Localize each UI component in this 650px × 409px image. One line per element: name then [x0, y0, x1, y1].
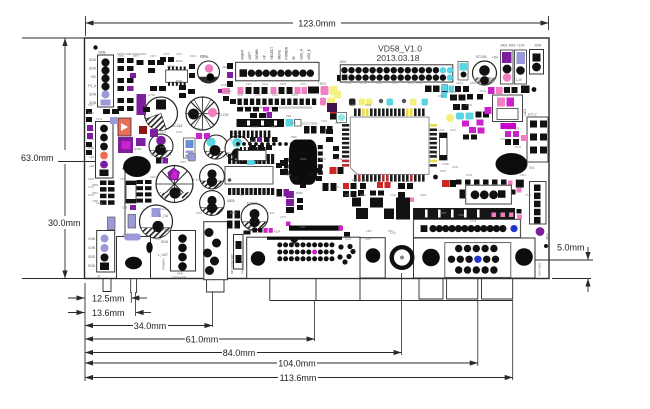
board outline	[85, 38, 550, 279]
svg-text:K212: K212	[450, 128, 457, 132]
svg-text:R484: R484	[88, 177, 95, 181]
svg-text:J402 J401 +12V: J402 J401 +12V	[500, 44, 525, 48]
svg-text:U637: U637	[392, 81, 399, 85]
svg-text:C457: C457	[350, 103, 357, 107]
diode Q701 salmon	[118, 118, 158, 153]
SMD cluster under QFP	[343, 178, 391, 197]
SMD cluster left of QFP	[318, 82, 347, 160]
svg-text:C84: C84	[160, 145, 166, 149]
svg-text:GND: GND	[88, 264, 96, 268]
dimension 113.6mm	[85, 371, 513, 383]
SMD pair near J013	[516, 180, 524, 188]
capacitor ECR26	[200, 191, 225, 216]
svg-text:U580: U580	[440, 211, 447, 215]
IC U803	[238, 147, 266, 164]
svg-text:C474: C474	[335, 121, 342, 125]
svg-text:D444: D444	[285, 173, 292, 177]
connector J408	[88, 51, 113, 108]
svg-text:U862: U862	[420, 193, 427, 197]
svg-text:K144: K144	[164, 229, 171, 233]
svg-text:J001: J001	[339, 60, 346, 64]
svg-text:U931: U931	[500, 137, 507, 141]
svg-text:MENU: MENU	[277, 49, 281, 59]
svg-text:5 6: 5 6	[530, 166, 535, 170]
svg-text:C30: C30	[404, 179, 410, 183]
svg-text:34.0mm: 34.0mm	[134, 321, 167, 331]
resistors R223 R225	[505, 127, 527, 146]
connector LVDS	[414, 219, 521, 237]
capacitor C608 teal	[225, 131, 250, 161]
svg-text:VD58_V1.0: VD58_V1.0	[378, 44, 422, 54]
svg-text:SPEAKER: SPEAKER	[172, 275, 187, 279]
J7 tab below board	[103, 279, 111, 292]
svg-text:D661: D661	[292, 93, 299, 97]
speaker labels	[158, 214, 169, 257]
tiny designator texts	[88, 52, 532, 241]
SMD pads pair mid	[227, 211, 240, 229]
SMD cluster extra mid	[86, 142, 282, 168]
svg-text:5.0mm: 5.0mm	[557, 243, 585, 253]
via dot near VGA	[544, 244, 548, 248]
SMD red right of blob	[330, 167, 344, 174]
svg-text:1.2V: 1.2V	[516, 78, 523, 82]
svg-text:R501: R501	[434, 150, 438, 158]
SMD row C624	[237, 114, 302, 127]
svg-text:K911: K911	[246, 82, 252, 86]
svg-text:EC165: EC165	[476, 55, 486, 59]
svg-text:R250: R250	[440, 169, 447, 173]
svg-text:K324: K324	[274, 230, 281, 234]
svg-text:U71 2: U71 2	[528, 113, 537, 117]
svg-text:VGA GND: VGA GND	[538, 263, 542, 276]
crystal blob Y200	[284, 135, 323, 185]
svg-text:R142: R142	[250, 139, 257, 143]
svg-text:12.5mm: 12.5mm	[92, 294, 125, 304]
SMD rows under striped module	[250, 137, 278, 150]
IC U200 QFP	[342, 109, 438, 182]
svg-text:2013.03.18: 2013.03.18	[376, 53, 419, 63]
SMD row above C624	[237, 107, 278, 112]
dimension 30.0mm	[48, 162, 128, 279]
AV box hole	[251, 251, 265, 265]
connector J7 bottom-left	[88, 231, 115, 279]
headphone jack	[117, 234, 166, 294]
svg-text:C870: C870	[163, 52, 170, 56]
svg-text:U964: U964	[376, 81, 383, 85]
SMD cluster top-left	[117, 52, 233, 129]
svg-text:K927: K927	[88, 103, 95, 107]
svg-text:D844: D844	[470, 81, 477, 85]
svg-text:D431: D431	[226, 138, 233, 142]
SMD band above LVDS	[352, 180, 522, 220]
svg-text:R964: R964	[365, 237, 372, 241]
svg-text:D590: D590	[280, 82, 287, 86]
svg-text:C621: C621	[321, 119, 328, 123]
svg-text:104.0mm: 104.0mm	[278, 359, 316, 369]
svg-text:41C3: 41C3	[456, 81, 463, 85]
svg-text:R350: R350	[246, 225, 253, 229]
svg-text:C307: C307	[300, 82, 307, 86]
capacitor GZ94	[198, 55, 228, 83]
svg-text:K811: K811	[388, 229, 394, 233]
header U71	[527, 113, 548, 171]
svg-text:K250: K250	[290, 121, 297, 125]
svg-text:J7: J7	[97, 275, 101, 279]
svg-text:R911: R911	[262, 82, 269, 86]
via row	[236, 142, 312, 146]
connector J001	[337, 60, 453, 82]
svg-text:VAO GND: VAO GND	[241, 261, 245, 274]
capacitor EC165	[473, 55, 497, 85]
svg-text:I DIN: I DIN	[88, 237, 96, 241]
svg-text:DOWN: DOWN	[255, 48, 259, 59]
LED purple	[536, 227, 545, 236]
svg-text:R857: R857	[118, 54, 125, 58]
svg-text:J408: J408	[98, 51, 105, 55]
svg-text:R577: R577	[133, 54, 140, 58]
dimension 13.6mm	[68, 308, 151, 318]
SMD left lower column	[92, 180, 151, 230]
svg-text:D392: D392	[480, 89, 487, 93]
svg-text:K842: K842	[96, 201, 103, 205]
SMD rows under J20	[238, 87, 320, 119]
svg-text:U521: U521	[525, 193, 532, 197]
svg-text:123.0mm: 123.0mm	[298, 19, 336, 29]
capacitor ECR20	[200, 164, 225, 189]
svg-text:D31C7 R306: D31C7 R306	[302, 122, 318, 126]
capacitor EC163	[145, 97, 183, 130]
svg-text:D332: D332	[466, 173, 473, 177]
svg-text:C306: C306	[442, 162, 449, 166]
svg-text:GND: GND	[161, 240, 169, 244]
IC U392	[166, 65, 188, 86]
svg-text:U274: U274	[165, 153, 172, 157]
connector small bottom	[234, 235, 245, 275]
+5V leader	[58, 161, 96, 163]
svg-text:R344: R344	[190, 54, 197, 58]
svg-text:POWER: POWER	[162, 258, 166, 270]
svg-text:+5V: +5V	[492, 56, 499, 60]
svg-text:L_OUT: L_OUT	[158, 253, 168, 257]
capacitor F purple-X	[156, 166, 200, 203]
svg-text:R306: R306	[296, 191, 303, 195]
svg-text:K437: K437	[176, 52, 183, 56]
AV jack ring	[392, 247, 413, 268]
svg-text:61.0mm: 61.0mm	[186, 335, 219, 345]
svg-text:84.0mm: 84.0mm	[223, 348, 256, 358]
svg-text:R731: R731	[360, 81, 367, 85]
svg-text:J004: J004	[534, 44, 541, 48]
capacitor row above QFP	[349, 99, 428, 106]
AV box legs	[270, 279, 360, 301]
connector 4-hole	[460, 185, 512, 204]
svg-text:C71G: C71G	[224, 89, 232, 93]
caps above U401	[488, 87, 518, 94]
connector J013	[530, 182, 550, 241]
svg-text:GND: GND	[89, 67, 97, 71]
svg-text:D530: D530	[88, 193, 95, 197]
svg-text:30.0mm: 30.0mm	[48, 218, 81, 228]
capacitor D1 purple	[149, 134, 173, 158]
svg-text:R223 R225: R223 R225	[505, 127, 520, 131]
svg-text:D780: D780	[176, 130, 183, 134]
svg-text:D457: D457	[237, 139, 244, 143]
SMD left column	[86, 109, 119, 139]
title text VD58_V1.0	[378, 44, 422, 54]
dimension 61.0mm	[85, 333, 315, 345]
svg-text:C587: C587	[120, 177, 127, 181]
svg-text:D547: D547	[320, 157, 327, 161]
svg-text:Q701: Q701	[134, 147, 142, 151]
svg-text:C62: C62	[286, 114, 292, 118]
svg-text:K30: K30	[300, 225, 306, 229]
svg-text:R300: R300	[416, 81, 423, 85]
dimension 104.0mm	[85, 357, 478, 369]
svg-text:+24: +24	[89, 164, 94, 168]
svg-text:K_OU: K_OU	[159, 214, 168, 218]
SMD pads above blob	[302, 122, 333, 134]
connector AV box	[247, 232, 360, 278]
VGA mount hole left	[422, 249, 440, 267]
bottom extension lines	[85, 273, 513, 381]
title date 2013.03.18	[376, 53, 419, 63]
svg-text:13.6mm: 13.6mm	[92, 308, 125, 318]
svg-text:UP: UP	[263, 54, 267, 59]
power regulators J402 J401	[492, 44, 542, 85]
connector J20 keypad	[236, 46, 319, 80]
svg-text:K644: K644	[272, 93, 279, 97]
svg-text:D901: D901	[150, 175, 157, 179]
svg-text:LEFT: LEFT	[248, 51, 252, 59]
svg-text:R992: R992	[365, 103, 372, 107]
connector VGA	[414, 238, 542, 278]
speaker connector	[171, 231, 196, 280]
dimension 34.0mm	[85, 319, 213, 331]
IC U605	[225, 154, 274, 203]
svg-text:RIGHT: RIGHT	[241, 49, 245, 59]
svg-text:U637: U637	[155, 237, 162, 241]
svg-text:L401: L401	[523, 109, 527, 116]
svg-text:K907: K907	[150, 54, 157, 58]
svg-text:C6: C6	[336, 185, 340, 189]
SMD cluster bottom middle	[244, 226, 344, 235]
svg-text:U805: U805	[227, 199, 235, 203]
svg-text:D442: D442	[466, 103, 473, 107]
svg-text:+: +	[171, 99, 174, 104]
svg-text:Y200: Y200	[290, 135, 297, 139]
svg-text:U402: U402	[345, 237, 352, 241]
svg-text:SELECT: SELECT	[270, 47, 274, 60]
svg-text:U332: U332	[390, 193, 397, 197]
svg-text:L702: L702	[221, 113, 229, 117]
VGA mount hole right	[515, 248, 533, 266]
svg-text:K832: K832	[408, 81, 415, 85]
svg-text:C532: C532	[150, 153, 157, 157]
svg-text:K552: K552	[196, 211, 203, 215]
dimension 12.5mm	[68, 294, 147, 304]
svg-text:U914: U914	[122, 233, 129, 237]
svg-text:U707: U707	[255, 93, 262, 97]
connector J004	[530, 50, 544, 75]
svg-text:J013: J013	[545, 233, 549, 240]
svg-text:K852: K852	[270, 125, 277, 129]
svg-text:D454: D454	[230, 211, 237, 215]
inductor G hatched	[140, 205, 173, 238]
svg-text:+24: +24	[89, 155, 94, 159]
svg-text:C98: C98	[122, 206, 128, 210]
capacitor black right	[496, 153, 528, 175]
svg-text:C184: C184	[438, 128, 445, 132]
misc labels	[148, 81, 463, 229]
svg-text:C931: C931	[450, 90, 457, 94]
svg-text:C190: C190	[160, 130, 167, 134]
capacitors CR24 magenta	[196, 133, 210, 139]
dimension 123.0mm	[86, 16, 549, 36]
svg-text:EC617: EC617	[247, 202, 257, 206]
dimension 63.0mm	[21, 38, 85, 279]
capacitor C98 pair	[156, 158, 168, 164]
svg-text:R103: R103	[176, 59, 183, 63]
SMD cluster left of U605	[292, 168, 322, 188]
svg-text:D237: D237	[88, 111, 95, 115]
capacitor EC607	[241, 202, 268, 231]
svg-text:R632: R632	[336, 157, 343, 161]
diode CH02	[502, 86, 537, 94]
svg-text:C702: C702	[148, 93, 155, 97]
svg-text:TB202: TB202	[318, 82, 327, 86]
svg-text:63.0mm: 63.0mm	[21, 153, 54, 163]
svg-text:U762: U762	[88, 185, 95, 189]
svg-text:C750: C750	[221, 83, 228, 87]
dimension 84.0mm	[85, 346, 402, 358]
resistor R501	[434, 133, 447, 160]
dimension 5.0mm	[533, 243, 593, 293]
box B with hole	[359, 238, 386, 278]
module U401	[493, 95, 528, 129]
svg-text:D880: D880	[252, 125, 259, 129]
svg-text:D501: D501	[360, 193, 367, 197]
svg-text:+5V: +5V	[90, 75, 97, 79]
svg-text:D444: D444	[96, 117, 103, 121]
connector tabs below board	[270, 279, 513, 301]
svg-text:JDIN: JDIN	[89, 92, 97, 96]
svg-text:R622: R622	[196, 128, 203, 132]
svg-text:C821: C821	[458, 213, 465, 217]
svg-text:C850: C850	[268, 211, 275, 215]
svg-text:U920: U920	[300, 157, 307, 161]
svg-text:I DIN: I DIN	[88, 246, 96, 250]
device 47C teal	[458, 62, 468, 81]
svg-text:GND: GND	[89, 58, 97, 62]
svg-text:POWER: POWER	[285, 46, 289, 59]
fiducial dot	[93, 45, 97, 49]
connector J3 left	[87, 122, 113, 179]
capacitor black left	[123, 156, 151, 177]
SMD cluster mid-bottom	[280, 160, 303, 226]
svg-text:C572: C572	[280, 215, 287, 219]
svg-text:U220: U220	[345, 81, 352, 85]
svg-text:C480: C480	[237, 93, 244, 97]
svg-text:IR: IR	[240, 193, 243, 197]
svg-text:113.6mm: 113.6mm	[280, 373, 317, 383]
svg-text:D804: D804	[200, 54, 207, 58]
svg-text:U741: U741	[470, 219, 477, 223]
SMD cluster right of QFP	[441, 85, 489, 140]
svg-text:K897: K897	[366, 229, 373, 233]
inductor L702	[186, 97, 229, 130]
svg-text:LED_K: LED_K	[307, 48, 311, 59]
capacitor D2 purple	[204, 135, 228, 159]
svg-text:D342: D342	[452, 165, 459, 169]
SMD cluster extra top-left	[150, 83, 236, 104]
svg-text:K687: K687	[180, 160, 187, 164]
svg-text:EC163: EC163	[172, 124, 182, 128]
svg-text:K487: K487	[345, 193, 352, 197]
svg-text:E6C3 D603: E6C3 D603	[352, 178, 367, 182]
svg-text:LED_A: LED_A	[299, 48, 303, 59]
svg-text:D672: D672	[515, 145, 522, 149]
svg-text:FS_A: FS_A	[88, 84, 97, 88]
svg-text:GND: GND	[88, 255, 96, 259]
SMD row under J001	[334, 81, 454, 99]
svg-text:K310: K310	[520, 173, 527, 177]
svg-text:D837: D837	[438, 94, 445, 98]
capacitor magenta columns	[485, 107, 492, 114]
capacitor striped blue	[184, 138, 196, 158]
svg-text:J20: J20	[222, 65, 227, 69]
MIC jack	[203, 222, 234, 292]
capacitor C4 lavender	[188, 154, 196, 162]
striped module	[230, 131, 270, 139]
svg-text:R391: R391	[176, 79, 183, 83]
SMD pads below U605	[277, 183, 337, 197]
svg-text:C912: C912	[160, 207, 167, 211]
